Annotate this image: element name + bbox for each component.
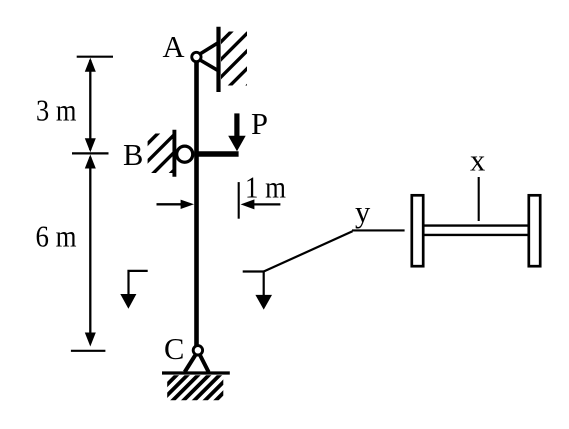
svg-text:6 m: 6 m (36, 219, 77, 253)
I-beam left flange (412, 195, 423, 266)
left section mark arrowhead (120, 294, 136, 309)
I-beam right flange (529, 195, 540, 266)
I-beam web bottom line (425, 234, 528, 236)
svg-text:y: y (355, 195, 371, 229)
support C triangle right leg (198, 351, 209, 372)
svg-text:C: C (164, 332, 184, 366)
pin circle C (193, 346, 202, 355)
svg-text:A: A (163, 30, 185, 64)
svg-text:x: x (470, 144, 485, 178)
support A triangle link lower bar (198, 59, 219, 71)
svg-text:3 m: 3 m (36, 94, 77, 128)
support A wall hatching (136, 7, 326, 127)
dim bottom tick (C level) (71, 350, 106, 352)
dim arrow up at A (85, 58, 96, 72)
load P arrowhead (228, 136, 246, 151)
x axis line (478, 177, 480, 221)
bracket arm at B (194, 151, 238, 157)
svg-text:B: B (123, 138, 143, 172)
left section mark elbow (129, 271, 148, 296)
dim mid tick (B level) (72, 152, 109, 154)
dim arrow down at B (85, 138, 96, 152)
right section mark elbow (243, 272, 264, 297)
support B wall hatching (71, 100, 244, 220)
svg-text:P: P (251, 107, 268, 141)
ground line at C (162, 371, 230, 374)
right section mark arrowhead (255, 295, 272, 310)
column AC (member) (194, 60, 199, 347)
arrow pointing right at column (157, 203, 184, 205)
dim line 6m segment (89, 157, 91, 340)
leader line from section mark to y axis (264, 231, 353, 271)
support A wall line (216, 27, 220, 92)
1m tick (238, 182, 240, 219)
dim arrow up at B (85, 155, 96, 169)
svg-text:1 m: 1 m (245, 170, 286, 204)
pin circle A (192, 52, 201, 61)
dim arrow down at C (85, 333, 96, 347)
support C triangle left leg (185, 351, 198, 372)
1m arrow pointing left (251, 203, 280, 205)
y axis line (352, 229, 405, 231)
ground hatching at C (91, 341, 286, 429)
support B wall line (172, 130, 176, 177)
dim line 3m segment (89, 60, 91, 150)
roller circle B (177, 146, 193, 162)
dim top tick (77, 56, 113, 58)
I-beam web top line (425, 224, 528, 226)
support A triangle link upper bar (198, 43, 219, 56)
load P arrow shaft (234, 113, 239, 137)
